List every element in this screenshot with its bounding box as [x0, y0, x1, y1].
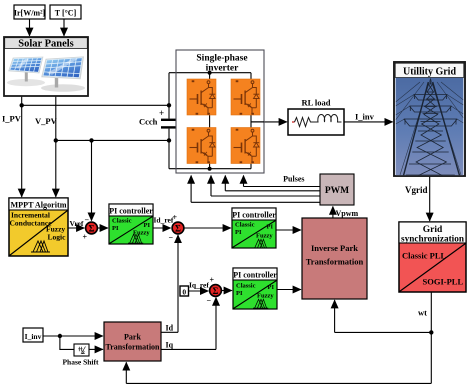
svg-text:+: + [159, 108, 164, 118]
svg-text:Iq_ref: Iq_ref [189, 281, 209, 290]
svg-text:0: 0 [182, 288, 186, 297]
svg-text:PI: PI [112, 225, 119, 232]
svg-text:Fuzzy: Fuzzy [257, 293, 274, 300]
svg-text:Single-phase: Single-phase [196, 54, 247, 64]
svg-text:Ccch: Ccch [139, 117, 158, 127]
svg-text:Transformation: Transformation [306, 257, 364, 267]
svg-text:PI controller: PI controller [233, 271, 277, 280]
svg-text:Phase Shift: Phase Shift [62, 358, 99, 367]
svg-text:PWM: PWM [325, 186, 349, 196]
svg-text:PI controller: PI controller [109, 207, 153, 216]
svg-text:Utillity Grid: Utillity Grid [403, 67, 456, 78]
svg-text:I_inv: I_inv [25, 332, 42, 341]
svg-text:I_inv: I_inv [355, 112, 375, 122]
svg-text:Iq: Iq [166, 341, 174, 350]
svg-text:Park: Park [124, 333, 141, 342]
svg-text:Classic: Classic [235, 222, 255, 229]
svg-text:+: + [210, 276, 215, 285]
svg-text:synchronization: synchronization [401, 235, 465, 245]
svg-text:Σ: Σ [175, 223, 181, 233]
svg-text:RL load: RL load [301, 98, 330, 108]
svg-text:wt: wt [418, 308, 427, 318]
svg-text:PI: PI [144, 222, 151, 229]
svg-text:Pulses: Pulses [283, 175, 304, 184]
svg-text:SOGI-PLL: SOGI-PLL [423, 277, 464, 287]
svg-text:PI controller: PI controller [232, 211, 276, 220]
svg-text:+: + [83, 233, 88, 242]
svg-text:I_PV: I_PV [2, 114, 22, 124]
svg-text:PI: PI [268, 284, 275, 291]
svg-text:Vgrid: Vgrid [405, 185, 428, 195]
svg-text:Vpwm: Vpwm [336, 209, 359, 218]
svg-text:Transformation: Transformation [106, 343, 161, 352]
svg-text:Id: Id [166, 324, 174, 333]
svg-text:Solar Panels: Solar Panels [18, 39, 74, 50]
svg-text:T [°C]: T [°C] [55, 9, 77, 18]
svg-text:Classic PLL: Classic PLL [402, 251, 446, 261]
svg-text:PI: PI [267, 224, 274, 231]
svg-text:Classic: Classic [236, 283, 256, 290]
svg-text:Σ: Σ [213, 286, 219, 296]
svg-text:Grid: Grid [423, 225, 443, 235]
svg-text:Ir[W/m²]: Ir[W/m²] [14, 9, 46, 18]
svg-text:Inverse Park: Inverse Park [311, 243, 358, 253]
svg-text:Id_ref: Id_ref [154, 216, 174, 225]
svg-text:−: − [85, 216, 90, 225]
svg-text:Logic: Logic [48, 233, 67, 242]
svg-text:MPPT Algoritm: MPPT Algoritm [11, 200, 68, 210]
svg-text:−: − [207, 296, 212, 305]
svg-text:PI: PI [235, 229, 242, 236]
svg-text:PI: PI [236, 290, 243, 297]
svg-text:Σ: Σ [89, 223, 95, 233]
svg-text:Vref: Vref [70, 219, 84, 228]
svg-text:V_PV: V_PV [35, 116, 58, 126]
svg-text:Classic: Classic [112, 218, 132, 225]
svg-text:inverter: inverter [206, 64, 239, 74]
svg-text:−: − [169, 233, 174, 242]
